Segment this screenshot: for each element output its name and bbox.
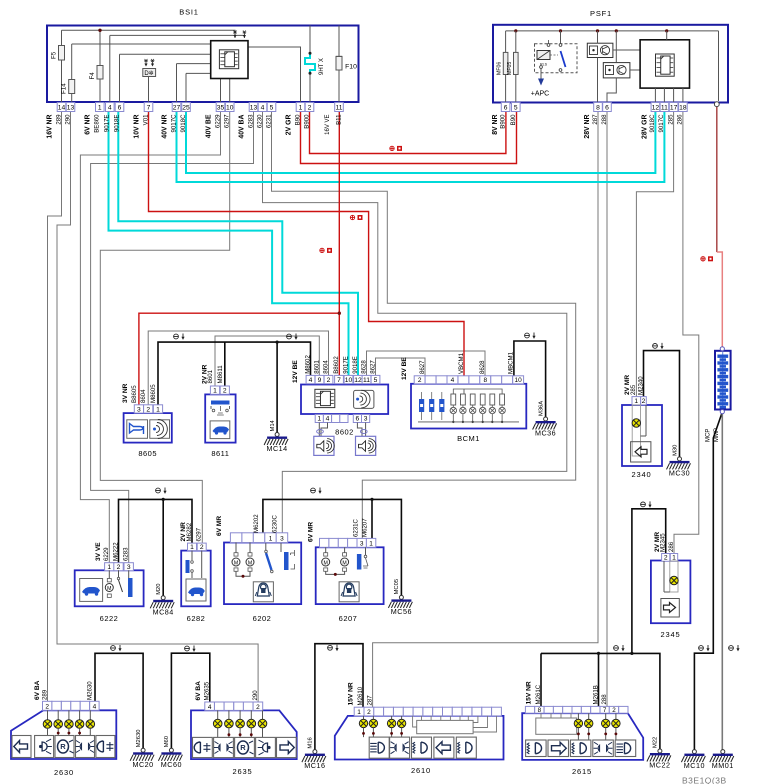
svg-text:2: 2 [612,707,616,714]
svg-text:M: M [342,560,346,566]
svg-text:7: 7 [337,377,341,384]
svg-text:12: 12 [354,377,362,384]
svg-text:1: 1 [634,398,638,405]
svg-text:M6222: M6222 [112,542,119,561]
svg-text:MMP: MMP [714,428,720,442]
svg-text:8: 8 [596,105,600,112]
svg-text:M2610: M2610 [357,686,364,705]
svg-text:F5: F5 [51,51,58,59]
svg-text:M2630: M2630 [87,681,94,700]
svg-text:1: 1 [299,105,303,112]
svg-text:MC56: MC56 [391,607,412,616]
svg-text:8: 8 [483,377,487,384]
svg-text:2: 2 [327,377,331,384]
svg-text:MC60: MC60 [161,760,182,769]
svg-text:MC05: MC05 [394,579,400,594]
svg-text:287: 287 [366,695,373,706]
svg-text:BSI1: BSI1 [179,8,198,17]
svg-text:PSF1: PSF1 [590,9,612,18]
svg-text:35: 35 [217,105,225,112]
svg-text:286: 286 [668,541,675,552]
svg-text:9018C: 9018C [649,114,656,133]
svg-text:6230C: 6230C [271,514,278,533]
svg-text:6297: 6297 [196,527,203,541]
svg-text:15V NR: 15V NR [526,681,533,704]
svg-text:6297: 6297 [224,114,231,128]
svg-text:6: 6 [504,105,508,112]
svg-text:2V GR: 2V GR [286,114,293,135]
svg-text:5: 5 [270,105,274,112]
svg-text:6231: 6231 [265,114,272,128]
svg-text:8601: 8601 [207,369,214,383]
svg-text:3V VE: 3V VE [95,542,102,561]
svg-text:6283: 6283 [123,547,130,561]
svg-text:8627: 8627 [419,360,426,374]
svg-text:2: 2 [146,406,150,413]
svg-text:13: 13 [250,105,258,112]
svg-text:25: 25 [182,105,190,112]
svg-text:18: 18 [679,105,687,112]
svg-text:1: 1 [98,105,102,112]
svg-text:M261C: M261C [535,684,542,704]
svg-text:M2635: M2635 [204,681,211,700]
svg-text:6: 6 [356,416,360,423]
svg-text:8604: 8604 [322,360,329,374]
svg-text:10: 10 [345,377,353,384]
svg-text:8601: 8601 [313,360,320,374]
svg-text:2: 2 [418,377,422,384]
svg-text:MC84: MC84 [153,607,174,616]
svg-text:2610: 2610 [411,766,431,775]
svg-text:12V BE: 12V BE [292,360,299,383]
svg-text:2: 2 [200,544,204,551]
svg-text:B8602: B8602 [333,356,340,374]
svg-text:D✲: D✲ [144,70,153,77]
svg-text:3V NR: 3V NR [122,383,129,403]
svg-text:1: 1 [213,388,217,395]
svg-text:M8605: M8605 [150,384,157,403]
svg-text:MF05: MF05 [507,62,513,75]
svg-text:9HT X: 9HT X [319,58,325,75]
svg-text:14: 14 [58,105,66,112]
svg-text:6230: 6230 [256,114,263,128]
svg-text:M261B: M261B [592,685,599,704]
svg-text:M: M [324,560,328,566]
svg-text:2: 2 [117,564,121,571]
svg-text:17: 17 [670,105,678,112]
svg-text:10V NR: 10V NR [134,114,141,138]
svg-text:M: M [248,560,252,566]
svg-text:BE860: BE860 [94,114,101,133]
svg-text:9018E: 9018E [352,356,359,374]
svg-text:289: 289 [55,114,62,125]
svg-text:8602: 8602 [335,428,354,437]
svg-text:MC16: MC16 [304,761,325,770]
svg-text:11: 11 [661,105,668,112]
svg-text:B90: B90 [510,114,517,125]
svg-text:8604: 8604 [140,389,147,403]
svg-text:F10: F10 [345,64,357,71]
svg-text:285: 285 [667,114,674,125]
svg-text:R: R [60,742,66,751]
svg-text:8V NR: 8V NR [492,114,499,134]
svg-text:2340: 2340 [632,470,652,479]
svg-text:B900: B900 [500,114,507,129]
svg-text:290: 290 [252,690,259,701]
svg-text:MCP: MCP [706,429,712,442]
svg-text:6207: 6207 [339,614,358,623]
svg-text:6V NR: 6V NR [85,114,92,134]
svg-text:4: 4 [326,416,330,423]
svg-text:VBCM1: VBCM1 [458,352,465,374]
svg-text:7: 7 [147,105,151,112]
svg-text:M8602: M8602 [304,355,311,374]
svg-text:2: 2 [308,105,312,112]
svg-text:6202: 6202 [253,614,272,623]
svg-text:5: 5 [514,105,518,112]
svg-text:11: 11 [363,377,370,384]
svg-text:287: 287 [592,114,599,125]
svg-text:9017E: 9017E [104,115,111,133]
svg-text:2: 2 [642,398,646,405]
svg-text:6V MR: 6V MR [216,516,223,536]
svg-text:M2345: M2345 [660,533,667,552]
svg-text:1: 1 [156,406,160,413]
svg-text:3: 3 [364,416,368,423]
svg-text:B90: B90 [294,114,301,125]
svg-text:6V BA: 6V BA [34,680,41,700]
svg-text:3: 3 [137,406,141,413]
svg-text:6: 6 [118,105,122,112]
svg-text:M: M [234,560,238,566]
svg-text:6229: 6229 [214,114,221,128]
svg-text:3: 3 [360,541,364,548]
svg-text:4: 4 [261,105,265,112]
svg-text:2630: 2630 [54,768,74,777]
svg-text:M30: M30 [672,445,678,456]
svg-text:MC22: MC22 [649,761,670,770]
svg-text:28V GR: 28V GR [642,114,649,139]
svg-text:11: 11 [336,105,343,112]
svg-text:288: 288 [601,694,608,705]
svg-text:6V MR: 6V MR [308,522,315,542]
svg-text:40V NR: 40V NR [162,114,169,138]
svg-text:8605: 8605 [138,449,157,458]
svg-text:B900: B900 [303,114,310,129]
svg-text:290: 290 [64,114,71,125]
svg-text:F14: F14 [61,83,68,94]
svg-text:9017C: 9017C [658,114,665,133]
svg-text:2345: 2345 [661,630,681,639]
svg-text:MC36: MC36 [535,429,556,438]
svg-text:1: 1 [357,709,361,716]
svg-text:4: 4 [451,377,455,384]
svg-text:2: 2 [256,704,260,711]
svg-text:9018E: 9018E [113,115,120,133]
svg-text:M6282: M6282 [186,522,193,541]
svg-text:M16: M16 [308,737,314,748]
svg-text:B8605: B8605 [131,385,138,403]
svg-text:2: 2 [45,704,49,711]
svg-text:6: 6 [605,105,609,112]
svg-text:8628: 8628 [360,360,367,374]
svg-text:R: R [240,743,246,752]
svg-text:6V BA: 6V BA [195,681,202,701]
svg-text:MF06: MF06 [497,62,503,75]
svg-text:28V NR: 28V NR [584,114,591,138]
svg-text:16V NR: 16V NR [47,114,54,138]
svg-text:1: 1 [672,555,676,562]
svg-text:V01: V01 [142,114,149,125]
svg-text:4: 4 [208,704,212,711]
svg-text:12V BE: 12V BE [401,357,408,380]
svg-text:40V BE: 40V BE [206,114,213,138]
svg-text:MM01: MM01 [712,761,734,770]
svg-text:286: 286 [677,114,684,125]
svg-text:8611: 8611 [211,449,229,458]
svg-text:MC30: MC30 [669,468,690,477]
svg-text:M2340: M2340 [637,376,644,395]
svg-text:4: 4 [309,377,313,384]
svg-text:6282: 6282 [187,614,206,623]
svg-text:40V BA: 40V BA [239,114,246,138]
svg-text:2: 2 [664,555,668,562]
svg-text:8628: 8628 [479,360,486,374]
svg-text:B3E1Q(3B: B3E1Q(3B [682,776,727,784]
svg-text:3: 3 [280,535,284,542]
svg-text:12: 12 [652,105,660,112]
svg-text:B11: B11 [336,114,343,125]
svg-text:6229: 6229 [103,547,110,561]
svg-text:F4: F4 [89,72,96,80]
svg-text:1: 1 [190,544,194,551]
svg-text:8627: 8627 [369,360,376,374]
svg-text:2615: 2615 [572,767,592,776]
svg-text:M20: M20 [156,584,162,595]
svg-text:7: 7 [603,707,607,714]
svg-text:MC10: MC10 [684,761,705,770]
svg-text:13: 13 [67,105,75,112]
svg-text:6222: 6222 [100,614,119,623]
svg-text:M6207: M6207 [362,518,369,537]
svg-text:289: 289 [41,689,48,700]
svg-text:10: 10 [515,377,523,384]
svg-text:6283: 6283 [247,114,254,128]
svg-text:285: 285 [630,384,637,395]
svg-text:2: 2 [223,388,227,395]
svg-text:M6202: M6202 [253,514,260,533]
svg-text:27: 27 [173,105,181,112]
svg-text:288: 288 [601,114,608,125]
svg-text:MBCM1: MBCM1 [508,351,515,374]
svg-text:M2630: M2630 [136,730,142,748]
svg-text:M: M [107,586,111,592]
svg-text:5: 5 [374,377,378,384]
svg-text:M60: M60 [164,736,170,747]
svg-text:10: 10 [226,105,234,112]
svg-text:9: 9 [318,377,322,384]
svg-text:MC14: MC14 [267,444,288,453]
svg-text:9018C: 9018C [180,114,187,133]
svg-text:2635: 2635 [233,767,253,776]
svg-text:4: 4 [108,105,112,112]
svg-text:+APC: +APC [531,91,549,98]
svg-text:16V VE: 16V VE [325,115,331,135]
svg-text:MC20: MC20 [133,760,154,769]
svg-text:M14: M14 [270,419,276,431]
svg-text:1: 1 [369,541,373,548]
svg-text:1: 1 [269,535,273,542]
svg-text:9017C: 9017C [170,114,177,133]
svg-text:M36A: M36A [538,401,544,416]
svg-text:8: 8 [538,707,542,714]
svg-text:3: 3 [127,564,131,571]
svg-text:9017E: 9017E [342,356,349,374]
svg-text:15V NR: 15V NR [348,682,355,705]
svg-text:M22: M22 [653,737,659,748]
svg-text:2: 2 [367,709,371,716]
svg-text:1: 1 [107,564,111,571]
svg-text:M8611: M8611 [217,365,224,384]
svg-text:BCM1: BCM1 [457,434,480,443]
svg-text:4: 4 [93,704,97,711]
svg-text:6231C: 6231C [353,518,360,537]
svg-text:1: 1 [317,416,321,423]
